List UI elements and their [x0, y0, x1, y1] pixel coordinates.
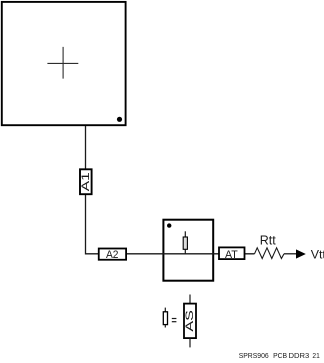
horizontal wire A2 to memory to AT — [126, 253, 255, 255]
svg-text:DDR3: DDR3 — [289, 351, 310, 360]
svg-text:AS: AS — [184, 310, 196, 332]
on-die termination element inside memory box — [183, 231, 187, 254]
svg-text:AT: AT — [225, 249, 238, 261]
svg-text:Vtt: Vtt — [311, 248, 324, 262]
resistor AS — [184, 295, 196, 348]
wire Rtt to arrow — [284, 253, 297, 255]
svg-text:PCB: PCB — [273, 351, 287, 360]
svg-text:A1: A1 — [80, 172, 92, 191]
svg-text:SPRS906: SPRS906 — [239, 351, 269, 360]
equals sign — [172, 318, 177, 322]
resistor AT — [219, 247, 245, 260]
legend termination element symbol — [163, 308, 167, 328]
svg-text:Rtt: Rtt — [260, 233, 277, 247]
svg-text:21: 21 — [312, 351, 319, 360]
DDR3 controller square U1 — [2, 2, 126, 125]
arrow to Vtt — [296, 249, 306, 258]
pin-1 dot of controller square — [117, 117, 122, 122]
memory device box U2 — [163, 220, 213, 281]
resistor A2 — [99, 249, 126, 261]
wire square to A1 — [85, 126, 87, 169]
resistor Rtt zigzag — [255, 248, 285, 259]
svg-text:A2: A2 — [106, 249, 119, 261]
resistor A1 — [80, 169, 92, 194]
crosshair center mark — [47, 47, 78, 79]
pin-1 dot of memory box — [167, 223, 171, 227]
wire A1 to corner to A2 — [86, 194, 100, 254]
